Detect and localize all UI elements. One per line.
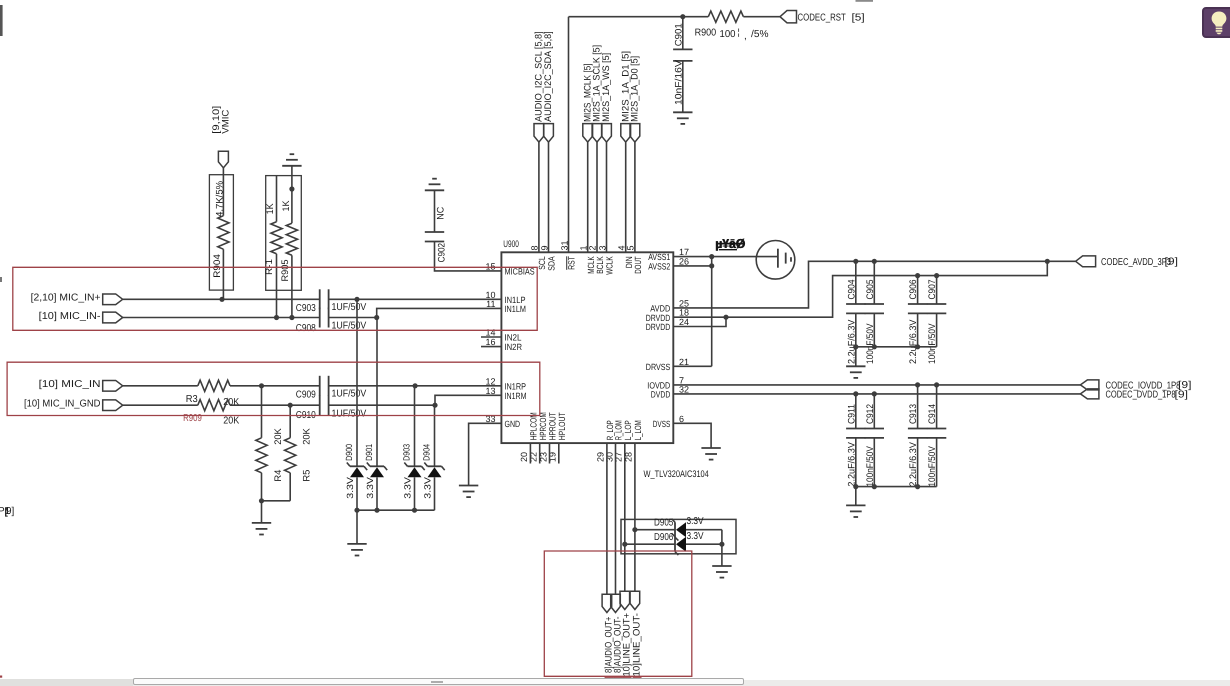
capacitor C905 <box>865 261 884 364</box>
capacitor C914 <box>927 385 946 487</box>
svg-text:BCLK: BCLK <box>595 256 605 274</box>
pin 28 L_LOM (bottom) <box>624 420 643 462</box>
ground AVDD caps <box>846 366 865 378</box>
net flag AUDIO_OUT+ red fragment <box>604 676 615 679</box>
ground DVSS <box>701 448 720 460</box>
wire D903 up <box>414 386 416 467</box>
red fragment bottom left <box>0 676 2 678</box>
wire bus to ground DVDD group <box>855 487 857 505</box>
svg-text:MICBIAS: MICBIAS <box>505 267 535 277</box>
svg-text:[9]: [9] <box>1175 389 1189 400</box>
resistor group outline box <box>266 176 302 291</box>
svg-text:1UF/50V: 1UF/50V <box>332 302 367 313</box>
svg-text:11: 11 <box>486 299 495 309</box>
wire bus to ground <box>356 510 358 544</box>
pin 6 DVSS (right) <box>653 414 684 429</box>
net flag MI2S_1A_WS <box>601 53 612 142</box>
node junction C913 rail <box>915 382 920 387</box>
net flag MI2S_1A_SCLK <box>592 45 603 142</box>
svg-text:IN1LM: IN1LM <box>505 304 527 314</box>
wire D900 up <box>356 299 358 466</box>
pin 26 AVSS2 (right) <box>648 256 689 271</box>
wire stub <box>549 443 551 463</box>
node junction R904/MIC_IN+ <box>219 297 224 302</box>
clipped top text fragment <box>856 0 874 2</box>
wire stub IN2L <box>481 336 501 338</box>
svg-text:4.7K/5%: 4.7K/5% <box>215 180 226 217</box>
clipped toolbar fragment <box>0 5 3 282</box>
node junction bus D903 <box>412 508 417 513</box>
ground R4/R5 <box>252 523 271 535</box>
svg-text:RST: RST <box>567 256 577 270</box>
svg-text:24: 24 <box>679 317 689 327</box>
pin 15 MICBIAS (left) <box>485 261 534 276</box>
net label MIC_IN_GND <box>24 399 101 410</box>
svg-text:12: 12 <box>485 376 495 386</box>
pin 11 IN1LM (left) <box>486 299 526 314</box>
resistor R5 <box>285 405 313 501</box>
scrollbar grip dots <box>431 681 443 683</box>
net flag CODEC_AVDD_3P3 <box>1076 256 1179 268</box>
node junction D903 <box>413 383 418 388</box>
svg-text:IN2L: IN2L <box>505 333 522 343</box>
diode D901 <box>364 444 387 499</box>
node junction D900 <box>354 297 359 302</box>
ground DVDD caps <box>846 505 865 517</box>
net flag MI2S_1A_D1 <box>620 51 631 142</box>
power flag VMIC <box>211 106 231 168</box>
wire MIC_IN_GND to R909 <box>123 404 198 406</box>
svg-text:6: 6 <box>679 414 684 424</box>
chassis ground in circle <box>756 240 795 279</box>
ground C901 <box>673 112 692 124</box>
wire D905/D906 common <box>721 530 723 566</box>
svg-text:C901: C901 <box>673 23 684 46</box>
pin 8 SCL (top) <box>530 245 547 269</box>
node junction R4 <box>259 383 264 388</box>
wire R5 to R4 bottom <box>262 500 291 502</box>
svg-text:1UF/50V: 1UF/50V <box>332 389 367 400</box>
capacitor C904 <box>846 261 865 364</box>
wire flag to chip <box>634 142 636 252</box>
svg-text:C912: C912 <box>865 404 876 424</box>
net label MIC_IN+ <box>31 293 101 304</box>
node junction bus C905 <box>872 344 877 349</box>
wire D900 down <box>356 477 358 510</box>
pin 14 IN2L (left) <box>485 328 521 343</box>
svg-text:HPLOUT: HPLOUT <box>557 412 567 440</box>
svg-text:[9,10]: [9,10] <box>211 106 222 134</box>
wire C910 to pin13 <box>329 395 502 405</box>
pin 33 GND (left) <box>485 414 520 429</box>
wire AVDD pin25 <box>673 261 1047 308</box>
net flag LINE_OUT+ <box>620 591 633 676</box>
bottom scrollbar track <box>0 680 1230 686</box>
ground D905/D906 <box>712 566 731 578</box>
svg-text:1K: 1K <box>281 200 292 212</box>
node junction R905 <box>289 315 294 320</box>
svg-text:D900: D900 <box>344 444 354 461</box>
svg-text:MI2S_1A_D0 [5]: MI2S_1A_D0 [5] <box>630 56 641 122</box>
svg-text:C903: C903 <box>296 303 316 314</box>
wire flag to chip <box>606 142 608 252</box>
wire stub <box>558 443 560 463</box>
svg-text:SDA: SDA <box>547 256 557 271</box>
wire DRVDD pin24 <box>673 317 726 326</box>
svg-text:HPRCOM: HPRCOM <box>538 412 548 440</box>
node junction bus C911 <box>853 484 858 489</box>
overlapped net label blob <box>715 236 746 251</box>
pin 2 BCLK (top) <box>588 245 605 273</box>
node junction bus C912 <box>872 484 877 489</box>
diode D906 <box>654 531 704 555</box>
capacitor C903 <box>296 289 367 314</box>
net flag AUDIO_I2C_SCL <box>534 31 545 142</box>
wire MICBIAS <box>435 242 502 271</box>
svg-text:WCLK: WCLK <box>605 256 615 275</box>
node junction C907 rail <box>934 273 939 278</box>
svg-text:1UF/50V: 1UF/50V <box>332 409 367 420</box>
svg-text:NC: NC <box>436 207 447 220</box>
net flag MI2S_1A_D0 <box>630 56 641 142</box>
node junction C905 rail <box>872 259 877 264</box>
svg-text:/5%: /5% <box>751 29 769 40</box>
wire R3 to C909 <box>230 385 320 387</box>
pin 13 IN1RM (left) <box>485 386 526 401</box>
pin 29 R_LOP (bottom) <box>596 420 615 462</box>
wire DVDD pin32 <box>673 393 1080 395</box>
node junction bus C906 <box>915 344 920 349</box>
svg-text:R900: R900 <box>695 28 717 39</box>
svg-text:3.3V: 3.3V <box>365 477 375 499</box>
svg-text:100nF/50V: 100nF/50V <box>865 446 876 487</box>
svg-text:3.3V: 3.3V <box>687 531 704 542</box>
svg-text:2.2uF/6.3V: 2.2uF/6.3V <box>908 319 919 364</box>
pin 31 RST (top) <box>559 240 576 269</box>
net flag CODEC_RST <box>780 11 865 24</box>
svg-text:10nF/16V: 10nF/16V <box>673 59 684 105</box>
scrollbar thumb <box>133 678 744 686</box>
wire C909 to pin12 <box>329 385 502 387</box>
svg-text:20K: 20K <box>273 428 284 445</box>
svg-text:IN1RM: IN1RM <box>505 391 527 401</box>
pin 16 IN2R (left) <box>485 337 522 352</box>
pin 3 WCLK (top) <box>597 245 614 274</box>
svg-text:[2,10] MIC_IN+: [2,10] MIC_IN+ <box>31 293 101 304</box>
svg-text:GND: GND <box>505 419 521 429</box>
svg-text:14: 14 <box>485 328 495 338</box>
node junction C912 rail <box>872 391 877 396</box>
svg-text:DRVDD: DRVDD <box>646 322 671 332</box>
node junction C906 rail <box>915 273 920 278</box>
svg-text:13: 13 <box>485 386 495 396</box>
svg-text:AUDIO_I2C_SDA [5,8]: AUDIO_I2C_SDA [5,8] <box>543 31 554 122</box>
svg-text:3.3V: 3.3V <box>345 477 355 499</box>
resistor R905 <box>280 189 297 318</box>
svg-text:3.3V: 3.3V <box>402 477 412 499</box>
node junction R4/R5 <box>259 498 264 503</box>
node junction R5 <box>288 403 293 408</box>
wire D903 down <box>414 477 416 510</box>
net flag MI2S_MCLK <box>582 63 593 142</box>
node junction rail merge <box>1045 259 1050 264</box>
svg-text:20K: 20K <box>223 416 239 427</box>
svg-text:2: 2 <box>588 245 598 250</box>
capacitor C911 <box>846 394 865 487</box>
capacitor C913 <box>908 385 927 487</box>
svg-text:32: 32 <box>679 384 689 394</box>
pin 10 IN1LP (left) <box>485 290 525 305</box>
highlight box MIC_IN+/- (red) <box>13 267 537 330</box>
svg-text:R4: R4 <box>273 470 284 482</box>
net label MIC_IN <box>39 379 101 390</box>
svg-text:C908: C908 <box>296 323 316 334</box>
svg-text:C911: C911 <box>846 404 857 424</box>
svg-text:R904: R904 <box>212 254 223 278</box>
svg-text:21: 21 <box>679 357 689 367</box>
svg-text:10]LINE_OUT-: 10]LINE_OUT- <box>632 613 643 677</box>
capacitor C906 <box>908 276 927 364</box>
resistor R909 <box>183 400 239 427</box>
net flag LINE_OUT- red fragment <box>632 676 643 679</box>
resistor R-1 <box>264 176 282 318</box>
capacitor C912 <box>865 394 884 487</box>
wire stub <box>529 443 531 463</box>
svg-text:R5: R5 <box>302 470 313 482</box>
node junction C904 rail <box>853 259 858 264</box>
svg-text:AVSS2: AVSS2 <box>648 262 670 272</box>
diode D904 <box>421 444 444 499</box>
wire C908 to pin11 <box>329 308 502 317</box>
capacitor C901 <box>673 17 692 112</box>
node junction D904 <box>432 403 437 408</box>
wire R900 to flag <box>743 16 780 18</box>
wire flag to chip <box>625 142 627 252</box>
diode D903 <box>401 444 424 499</box>
svg-text:100nF/50V: 100nF/50V <box>927 446 938 487</box>
svg-text:16: 16 <box>485 337 495 347</box>
node junction bus C913 <box>915 484 920 489</box>
svg-text:C913: C913 <box>908 404 919 424</box>
ground (inverted) above R905 <box>282 154 301 189</box>
op-amp U900 codec IC body W_TLV320AIC3104 <box>501 239 708 480</box>
wire D901 down <box>376 477 378 510</box>
node junction C914 rail <box>934 382 939 387</box>
wire D904 up <box>434 405 436 466</box>
svg-text:100: 100 <box>720 29 736 40</box>
wire D901 up <box>376 318 378 467</box>
node junction bus D900 <box>354 508 359 513</box>
node junction RST/C901 <box>680 14 685 19</box>
svg-text:[10] MIC_IN: [10] MIC_IN <box>39 379 101 390</box>
wire D906 right lead <box>686 543 722 545</box>
pin 1 MCLK (top) <box>579 245 596 273</box>
wire AVSS2 <box>673 265 711 267</box>
wire diode common bus <box>357 509 435 511</box>
wire stub IN2R <box>481 346 501 348</box>
node junction D901 <box>374 315 379 320</box>
capacitor C908 <box>296 308 367 335</box>
pin 30 R_LOM (bottom) <box>604 420 623 462</box>
net flag AUDIO_I2C_SDA <box>543 31 554 142</box>
svg-text:C909: C909 <box>296 389 316 400</box>
wire GND pin33 <box>469 423 502 485</box>
net flag AUDIO_OUT- red fragment <box>612 676 623 679</box>
svg-text:15: 15 <box>485 261 495 271</box>
pin 23 HPROUT (bottom) <box>538 412 557 462</box>
pin 22 HPRCOM (bottom) <box>529 412 548 462</box>
svg-text:SCL: SCL <box>537 256 547 270</box>
resistor R904 <box>212 168 229 299</box>
pin 32 DVDD (right) <box>651 384 689 399</box>
svg-text:IN2R: IN2R <box>505 342 523 352</box>
svg-text:C906: C906 <box>908 280 919 300</box>
svg-text:IN1RP: IN1RP <box>505 381 527 391</box>
wire R_LOP column <box>606 443 608 594</box>
capacitor C907 <box>927 276 946 364</box>
svg-text:D903: D903 <box>401 444 411 461</box>
wire D905 right lead <box>686 529 722 531</box>
pin 4 DIN (top) <box>617 245 634 268</box>
svg-text:D906: D906 <box>654 532 674 543</box>
node junction AVSS1 <box>709 254 714 259</box>
resistor R904 outline box <box>209 175 233 290</box>
diode D905 <box>654 516 704 541</box>
node junction R-1 <box>274 315 279 320</box>
pin 20 HPLCOM (bottom) <box>519 412 538 462</box>
svg-text:MI2S_1A_WS [5]: MI2S_1A_WS [5] <box>601 53 612 122</box>
svg-text:100nF/50V: 100nF/50V <box>927 323 938 364</box>
wire D904 down <box>434 477 436 510</box>
wire IOVDD pin7 <box>673 384 1080 386</box>
ground pin33 <box>459 486 478 498</box>
svg-text:D901: D901 <box>364 444 374 461</box>
node junction D905/L_LOM <box>632 527 637 532</box>
svg-text:5: 5 <box>625 245 635 250</box>
wire flag to chip <box>587 142 589 252</box>
net label fragment P1[9] <box>0 506 15 518</box>
svg-text:DVDD: DVDD <box>651 390 671 400</box>
wire AVSS1 <box>673 256 711 258</box>
svg-text:DOUT: DOUT <box>633 256 643 274</box>
net label MIC_IN- <box>39 311 101 322</box>
wire R909 to C910 <box>230 404 320 406</box>
resistor R4 <box>256 386 284 501</box>
svg-text:U900: U900 <box>503 239 519 250</box>
wire rail to flag <box>1047 260 1075 262</box>
net flag MIC_IN_GND <box>103 400 123 411</box>
svg-text:3.3V: 3.3V <box>422 477 432 499</box>
node junction D906/L_LOP <box>622 542 627 547</box>
pin 25 AVDD (right) <box>650 298 689 313</box>
node junction R905 top <box>289 186 294 191</box>
svg-text:W_TLV320AIC3104: W_TLV320AIC3104 <box>644 469 709 480</box>
node junction bus C904 <box>853 344 858 349</box>
net flag MIC_IN- <box>103 312 123 323</box>
svg-text:CODEC_DVDD_1P8: CODEC_DVDD_1P8 <box>1106 390 1176 401</box>
wire MIC_IN+ to C903 <box>123 298 320 300</box>
svg-text:26: 26 <box>679 256 689 266</box>
svg-text:3.3V: 3.3V <box>687 516 704 527</box>
svg-text:L_LOM: L_LOM <box>633 420 643 440</box>
svg-text:C907: C907 <box>927 280 938 300</box>
wire to chassis ground <box>712 256 778 258</box>
ground diode bus <box>347 544 366 556</box>
wire L_LOM column <box>634 443 636 591</box>
highlight box MIC_IN/GND (red) <box>7 362 540 415</box>
pin 21 DRVSS (right) <box>646 357 689 372</box>
wire C903 to pin10 <box>329 298 502 300</box>
resistor R900 <box>695 11 769 42</box>
resistor R3 <box>186 380 240 408</box>
capacitor C909 <box>296 376 367 401</box>
svg-text:C914: C914 <box>927 404 938 424</box>
svg-text:CODEC_RST: CODEC_RST <box>798 13 846 24</box>
wire AVSS vertical <box>711 257 713 367</box>
wire flag to chip <box>596 142 598 252</box>
node junction C911 rail <box>853 391 858 396</box>
svg-text:R905: R905 <box>280 260 291 282</box>
svg-text:CODEC_AVDD_3P3: CODEC_AVDD_3P3 <box>1101 257 1171 268</box>
wire DRVSS pin21 <box>673 365 711 367</box>
pin 9 SDA (top) <box>539 245 556 270</box>
net flag AUDIO_OUT+ <box>602 594 615 673</box>
bottom left panel strip <box>0 679 133 686</box>
wire flag to chip <box>538 142 540 252</box>
net flag MIC_IN+ <box>103 294 123 305</box>
wire D906 left lead <box>625 543 675 545</box>
pin 7 IOVDD (right) <box>647 375 684 390</box>
svg-text:L_LOP: L_LOP <box>623 420 633 440</box>
svg-text:[10] MIC_IN-: [10] MIC_IN- <box>39 311 101 322</box>
svg-text:C902: C902 <box>437 243 448 263</box>
svg-text:DVSS: DVSS <box>653 419 671 429</box>
wire MIC_IN- to C908 <box>123 317 320 319</box>
node junction AVSS2 <box>709 263 714 268</box>
svg-text:2.2uF/6.3V: 2.2uF/6.3V <box>908 441 919 486</box>
net flag CODEC_DVDD_1P8 <box>1080 389 1188 401</box>
wire MIC_IN to R3 <box>123 385 198 387</box>
wire RST vertical+horizontal run <box>569 17 683 253</box>
svg-text:[10] MIC_IN_GND: [10] MIC_IN_GND <box>24 399 101 410</box>
wire DRVDD pin18 <box>673 261 1047 317</box>
net flag AUDIO_OUT- <box>611 594 624 673</box>
net flag LINE_OUT- <box>630 591 643 676</box>
wire R_LOM column <box>615 443 617 594</box>
capacitor C910 <box>296 395 367 421</box>
wire stub <box>539 443 541 463</box>
wire cap bus AVDD group <box>856 346 937 348</box>
wire to ground <box>261 501 263 523</box>
svg-text:,: , <box>744 31 747 42</box>
svg-text:R909: R909 <box>183 413 202 424</box>
svg-text:100nF/50V: 100nF/50V <box>865 323 876 364</box>
svg-text:C904: C904 <box>846 280 857 300</box>
svg-text:R3: R3 <box>186 394 198 405</box>
lightbulb hint button <box>1202 7 1230 38</box>
pin 12 IN1RP (left) <box>485 376 526 391</box>
diode box outline <box>621 519 736 553</box>
svg-text:¦: ¦ <box>738 27 740 37</box>
wire R900 left lead <box>683 16 709 18</box>
wire L_LOP column <box>624 443 626 591</box>
svg-text:D904: D904 <box>421 444 431 461</box>
wire DVSS pin6 <box>673 423 711 447</box>
pin 24 DRVDD (right) <box>646 317 689 332</box>
svg-text:[9]: [9] <box>1165 257 1179 268</box>
pin 17 AVSS1 (right) <box>648 247 689 262</box>
diode D900 <box>344 444 367 499</box>
